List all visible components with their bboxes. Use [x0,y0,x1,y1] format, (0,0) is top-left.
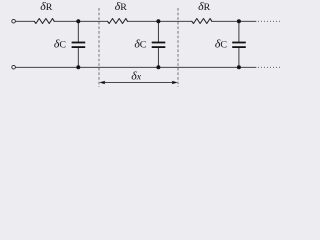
continuation dots top right [258,20,280,22]
wire top: R3 to right end [212,20,256,22]
capacitor C2 lead bottom [157,48,159,67]
svg-text:δR: δR [198,0,210,13]
resistor R3 (δR) [192,19,212,24]
dimension arrow δx [99,81,177,85]
wire top: R2 to R3 [128,20,192,22]
resistor R1 (δR) [34,19,54,24]
capacitor C1 lead bottom [77,48,79,67]
svg-text:δC: δC [134,37,146,51]
capacitor C3 lead top [238,21,240,42]
node dot top 2 [156,19,160,23]
node dot bottom 3 [237,65,241,69]
continuation dots bottom right [258,66,280,68]
wire top: terminal to R1 [16,20,35,22]
terminal top-left [12,19,16,23]
node dot top 3 [237,19,241,23]
capacitor C1 plates (δC) [72,42,86,44]
node dot bottom 1 [76,65,80,69]
svg-text:δR: δR [115,0,127,13]
capacitor C1 lead top [77,21,79,42]
node dot bottom 2 [156,65,160,69]
capacitor C2 lead top [157,21,159,42]
node dot top 1 [76,19,80,23]
svg-text:δx: δx [131,68,141,82]
svg-text:δC: δC [54,37,66,51]
svg-text:δC: δC [215,37,227,51]
capacitor C2 plates (δC) [152,42,166,44]
capacitor C3 plates (δC) [232,42,246,44]
wire top: R1 to R2 [54,20,107,22]
resistor R2 (δR) [108,19,128,24]
dashed section boundary right [177,8,179,87]
svg-text:δR: δR [40,0,52,13]
dashed section boundary left [98,8,100,87]
wire bottom [16,66,257,68]
capacitor C3 lead bottom [238,48,240,67]
terminal bottom-left [12,65,16,69]
